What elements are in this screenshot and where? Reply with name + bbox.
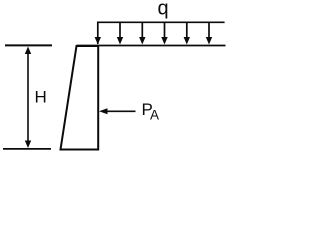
dimension arrow down (25, 141, 31, 149)
load arrow 1 (95, 37, 101, 45)
dimension arrow up (25, 47, 31, 55)
ground surface line (77, 45, 226, 47)
dimension top tick (5, 44, 52, 46)
dimension bottom tick (3, 148, 51, 150)
load arrow 4 (161, 23, 167, 45)
load arrow 2 (117, 23, 123, 45)
dimension line H (27, 50, 29, 145)
svg-text:q: q (158, 0, 169, 20)
wall (trapezoid retaining wall) (61, 46, 99, 150)
surcharge load line (98, 22, 225, 44)
load arrow 6 (206, 23, 212, 45)
svg-text:H: H (35, 88, 47, 107)
active pressure arrow PA (99, 108, 136, 114)
load arrow 5 (184, 23, 190, 45)
load arrow 3 (139, 23, 145, 45)
